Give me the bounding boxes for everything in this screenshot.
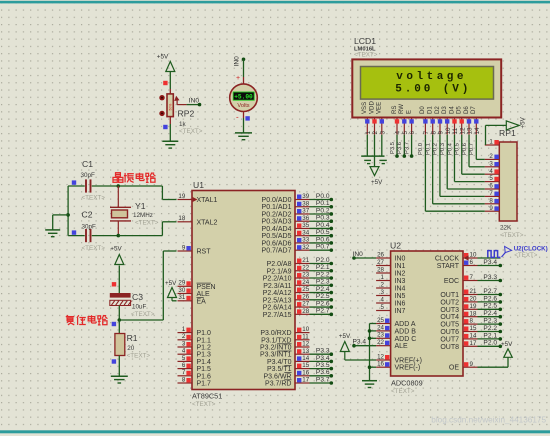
svg-text:P2.6/A14: P2.6/A14 [263, 305, 292, 312]
pin 3 LCD1 VEE [376, 102, 387, 135]
svg-text:P2.2: P2.2 [483, 325, 497, 332]
svg-text:C1: C1 [82, 159, 93, 169]
display text voltage [396, 71, 467, 83]
svg-text:P2.7: P2.7 [483, 288, 497, 295]
part name AT89C51 [192, 392, 222, 409]
svg-text:18: 18 [178, 215, 185, 222]
svg-text:+5V: +5V [157, 54, 169, 61]
pin 10 LCD1 D3 [441, 106, 452, 135]
wire net P3.4 [310, 355, 334, 363]
wire net P2.4 (U2) [478, 310, 503, 318]
svg-text:P3.2/INT0: P3.2/INT0 [260, 345, 292, 352]
svg-text:+5V: +5V [165, 280, 177, 287]
svg-text:IN1: IN1 [395, 263, 406, 270]
wire CLOCK to generator [478, 257, 501, 259]
svg-text:29: 29 [178, 280, 185, 287]
pin 11 LCD1 D4 [448, 106, 459, 135]
pin 1 U1 P1.0 [178, 326, 212, 337]
wire left rail [66, 186, 70, 236]
pin 22 U1 P2.1/A9 [267, 264, 310, 275]
svg-text:20: 20 [127, 345, 135, 352]
svg-text:P2.3: P2.3 [316, 279, 330, 286]
pin 8 U1 P1.7 [178, 376, 212, 387]
wire net P2.6 (U2) [478, 295, 503, 303]
pin 26 U1 P2.5/A13 [263, 293, 310, 304]
svg-text:<TEXT>: <TEXT> [135, 220, 159, 227]
svg-text:P3.5: P3.5 [316, 362, 330, 369]
svg-text:<TEXT>: <TEXT> [514, 252, 537, 259]
pin 9 RP1 [485, 205, 500, 212]
pin 7 RP1 [485, 190, 500, 197]
svg-text:9: 9 [489, 205, 493, 212]
capacitor C3 (electrolytic) [110, 293, 132, 306]
pin 14 U1 P3.4/T0 [267, 355, 310, 366]
svg-text:6: 6 [489, 183, 493, 190]
svg-text:EA: EA [197, 298, 207, 305]
wire voltmeter top [242, 58, 246, 85]
wire C2 row to XTAL2 [117, 222, 177, 238]
svg-text:P0.3/AD3: P0.3/AD3 [262, 219, 292, 226]
svg-text:P0.1: P0.1 [425, 143, 431, 155]
svg-text:P3.6: P3.6 [397, 142, 403, 154]
pin 27 U2 IN1 [376, 259, 405, 270]
node RST junction [112, 318, 121, 326]
svg-text:12: 12 [459, 127, 466, 135]
svg-text:10: 10 [302, 326, 309, 333]
svg-text:1k: 1k [179, 121, 187, 128]
svg-text:P2.7/A15: P2.7/A15 [263, 312, 292, 319]
svg-text:P3.4: P3.4 [316, 355, 330, 362]
pin 7 LCD1 D0 [419, 106, 430, 135]
svg-text:P0.7: P0.7 [469, 143, 475, 155]
svg-text:D1: D1 [427, 106, 434, 114]
svg-text:P0.2: P0.2 [433, 143, 439, 155]
value Y1 12MHz [133, 212, 159, 227]
wire C1 row to XTAL1 [117, 184, 177, 199]
svg-text:11: 11 [452, 127, 459, 134]
svg-text:<TEXT>: <TEXT> [391, 388, 415, 395]
pin 9 U1 RST [178, 244, 212, 255]
pin 20 U2 OUT2 [440, 296, 477, 307]
value R1 20 [127, 345, 151, 360]
svg-text:OUT7: OUT7 [440, 336, 459, 343]
pin 28 U2 IN2 [376, 266, 405, 277]
wire net P3.7 [310, 376, 334, 384]
svg-text:36: 36 [302, 215, 309, 222]
display LCD1 body [352, 59, 501, 117]
chip U2 ADC0809 body [391, 251, 463, 376]
pin 25 U2 ADD A [376, 317, 416, 328]
svg-text:XTAL1: XTAL1 [197, 197, 218, 204]
pin 7 U1 P1.6 [178, 369, 212, 380]
svg-text:P1.5: P1.5 [197, 366, 212, 373]
wire D5 to RP1 pin 4 (net P0.5) [455, 135, 485, 175]
svg-text:8: 8 [470, 318, 474, 325]
svg-text:P0.2/AD2: P0.2/AD2 [262, 211, 292, 218]
pin 2 LCD1 VDD [368, 101, 379, 135]
wire net P2.0 (U2) [478, 340, 503, 348]
svg-text:14: 14 [470, 333, 477, 340]
svg-text:7: 7 [182, 369, 186, 376]
svg-text:1: 1 [182, 326, 186, 333]
svg-text:13: 13 [302, 348, 309, 355]
wire net P3.6 [310, 369, 334, 377]
wire net P2.5 [310, 293, 334, 301]
display LCD1 screen [361, 67, 494, 100]
power +5V (EA) [165, 280, 177, 301]
svg-text:15: 15 [470, 325, 477, 332]
wire net P2.7 [310, 308, 334, 316]
svg-text:ADD A: ADD A [395, 321, 416, 328]
svg-text:OUT8: OUT8 [440, 344, 459, 351]
svg-text:19: 19 [470, 303, 477, 310]
wire net P3.5 [310, 362, 334, 370]
wire net P0.5 [310, 229, 334, 237]
potentiometer RP2 [159, 94, 186, 117]
wire net P2.0 [310, 257, 334, 265]
wire net P2.6 [310, 300, 334, 308]
pin 22 U2 ALE [376, 339, 408, 350]
svg-text:P2.0: P2.0 [483, 340, 497, 347]
pin 12 U2 VREF(+) [376, 353, 422, 364]
svg-text:IN0: IN0 [353, 251, 364, 258]
pin 34 U1 P0.5/AD5 [262, 229, 310, 240]
svg-text:38: 38 [302, 200, 309, 207]
svg-text:<TEXT>: <TEXT> [192, 401, 216, 408]
svg-text:P3.6: P3.6 [316, 369, 330, 376]
label C1 [82, 159, 93, 169]
pin 3 RP1 [485, 160, 500, 167]
wire net P0.1 [310, 200, 334, 208]
svg-text:19: 19 [178, 193, 185, 200]
pin 19 U1 XTAL1 [178, 193, 218, 204]
label U2(CLOCK) [514, 245, 548, 259]
wire D6 to RP1 pin 3 (net P0.6) [462, 135, 485, 167]
svg-text:5: 5 [182, 355, 186, 362]
svg-text:21: 21 [470, 288, 477, 295]
pin 17 U2 OUT8 [440, 340, 477, 351]
wire net P0.7 [310, 244, 334, 252]
svg-text:39: 39 [302, 193, 309, 200]
svg-text:7: 7 [470, 274, 474, 281]
ground (U2 address) [362, 381, 377, 388]
pin 18 U1 XTAL2 [178, 215, 218, 226]
svg-text:12: 12 [302, 341, 309, 348]
svg-text:D7: D7 [470, 106, 477, 114]
pin 4 RP1 [485, 168, 500, 175]
svg-text:IN6: IN6 [395, 301, 406, 308]
svg-text:IN0: IN0 [189, 97, 200, 104]
wire node to RST [119, 251, 176, 320]
svg-text:50%: 50% [169, 104, 173, 111]
voltmeter probe + [236, 75, 240, 82]
svg-text:35: 35 [302, 222, 309, 229]
svg-text:R1: R1 [127, 333, 138, 343]
svg-text:+5V: +5V [501, 341, 513, 348]
svg-text:blog.csdn.net/weixin_44136175: blog.csdn.net/weixin_44136175 [431, 416, 546, 425]
label R1 [127, 333, 138, 343]
svg-text:7: 7 [423, 131, 430, 135]
pin 24 U1 P2.3/A11 [263, 279, 310, 290]
wire net P3.7 (LCD) [404, 135, 413, 158]
svg-text:9: 9 [182, 244, 186, 251]
voltmeter probe - [236, 113, 239, 122]
svg-text:28: 28 [302, 308, 309, 315]
svg-text:P2.0/A8: P2.0/A8 [267, 261, 292, 268]
svg-text:P1.2: P1.2 [197, 345, 212, 352]
svg-text:9: 9 [470, 361, 474, 368]
svg-text:EOC: EOC [444, 278, 459, 285]
svg-text:P2.2/A10: P2.2/A10 [263, 276, 292, 283]
svg-text:P2.5: P2.5 [483, 303, 497, 310]
svg-text:8: 8 [489, 197, 493, 204]
svg-text:C2: C2 [82, 210, 93, 220]
pin 6 RP1 [485, 183, 500, 190]
svg-text:4: 4 [395, 131, 402, 135]
svg-text:D4: D4 [448, 106, 455, 114]
svg-text:IN0: IN0 [234, 56, 241, 67]
svg-text:+: + [236, 75, 240, 82]
svg-text:26: 26 [377, 251, 384, 258]
svg-text:9: 9 [438, 131, 445, 135]
svg-text:P3.0/RXD: P3.0/RXD [260, 330, 291, 337]
svg-text:5.00 (V): 5.00 (V) [395, 83, 471, 95]
svg-text:1: 1 [381, 274, 385, 281]
svg-text:RS: RS [391, 106, 398, 114]
net label IN0 (voltmeter) [234, 56, 241, 67]
pin 26 U2 IN0 [376, 251, 405, 262]
svg-text:P0.5: P0.5 [455, 143, 461, 155]
ground (voltmeter) [235, 133, 252, 140]
pin 4 U1 P1.3 [178, 348, 212, 359]
title reset circuit (red) [66, 315, 108, 325]
wire net P0.2 [310, 207, 334, 215]
svg-text:14: 14 [302, 355, 309, 362]
svg-text:P3.6/WR: P3.6/WR [263, 373, 291, 380]
wire RP2 bottom [163, 117, 170, 141]
pin 4 U2 IN6 [376, 296, 405, 307]
svg-text:1: 1 [365, 131, 372, 135]
pin 19 U2 OUT3 [440, 303, 477, 314]
svg-text:32: 32 [302, 244, 309, 251]
svg-text:P1.4: P1.4 [197, 359, 212, 366]
respack RP1 body [499, 142, 517, 221]
svg-text:10: 10 [445, 127, 452, 135]
capacitor C2 [68, 229, 118, 252]
svg-text:6: 6 [182, 362, 186, 369]
svg-text:P2.6: P2.6 [483, 295, 497, 302]
svg-text:<TEXT>: <TEXT> [82, 245, 106, 252]
wire D0 to RP1 pin 9 (net P0.0) [418, 135, 485, 212]
svg-text:6: 6 [470, 259, 474, 266]
pin 8 RP1 [485, 197, 500, 204]
power +5V (OE) [501, 341, 513, 357]
pin 28 U1 P2.7/A15 [263, 308, 310, 319]
svg-text:24: 24 [302, 279, 309, 286]
svg-text:P1.6: P1.6 [197, 373, 212, 380]
svg-text:D6: D6 [463, 106, 470, 114]
svg-text:P0.6: P0.6 [462, 143, 468, 155]
wire net P2.4 [310, 286, 334, 294]
power +5V (RP2) [157, 54, 175, 72]
wire net P3.4 (U2) [478, 259, 503, 267]
power +5V (reset) [110, 245, 123, 264]
net label IN0 (RP2) [189, 97, 200, 104]
generator U2(CLOCK) [488, 246, 512, 257]
value C3 10uF [131, 304, 155, 318]
svg-text:Y1: Y1 [135, 201, 146, 211]
pin 10 U2 CLOCK [435, 252, 478, 263]
svg-text:P0.1: P0.1 [316, 200, 330, 207]
pin 8 LCD1 D1 [427, 106, 438, 135]
svg-text:17: 17 [302, 377, 309, 384]
value C2 30pF [82, 223, 97, 230]
svg-text:P2.6: P2.6 [316, 300, 330, 307]
svg-text:P1.3: P1.3 [197, 352, 212, 359]
pin 25 U1 P2.4/A12 [263, 286, 310, 297]
pin 2 U2 IN4 [376, 281, 405, 292]
pin 7 U2 EOC [444, 274, 478, 285]
label C3 [132, 292, 143, 302]
svg-text:P0.6: P0.6 [316, 236, 330, 243]
svg-text:30pF: 30pF [82, 223, 97, 230]
pin 3 U1 P1.2 [178, 340, 212, 351]
pin 16 U2 VREF(-) [376, 361, 420, 372]
svg-text:P3.5: P3.5 [390, 142, 396, 154]
pin 1 RP1 [485, 138, 500, 145]
svg-text:IN2: IN2 [395, 271, 406, 278]
part name LM016L [354, 47, 378, 59]
pin 11 U1 P3.1/TXD [261, 333, 309, 344]
pin 23 U1 P2.2/A10 [263, 272, 310, 283]
svg-text:8: 8 [182, 376, 186, 383]
pin 5 LCD1 RW [398, 104, 409, 135]
wire D4 to RP1 pin 5 (net P0.4) [447, 135, 485, 182]
svg-text:P3.7: P3.7 [316, 376, 330, 383]
svg-text:ALE: ALE [197, 291, 211, 298]
crystal Y1 [110, 186, 131, 236]
svg-text:12MHz: 12MHz [133, 212, 153, 219]
svg-text:XTAL2: XTAL2 [197, 219, 218, 226]
svg-text:10: 10 [470, 252, 477, 259]
svg-text:<TEXT>: <TEXT> [82, 194, 106, 201]
svg-text:Volts: Volts [237, 103, 249, 109]
svg-text:U1: U1 [193, 180, 204, 190]
value RP1 22K [500, 225, 524, 239]
svg-text:P1.0: P1.0 [197, 330, 212, 337]
svg-text:27: 27 [302, 301, 309, 308]
svg-text:IN5: IN5 [395, 293, 406, 300]
svg-text:D2: D2 [434, 106, 441, 114]
pin 21 U1 P2.0/A8 [267, 257, 310, 268]
svg-text:P0.4/AD4: P0.4/AD4 [262, 226, 292, 233]
wire net IN0 (U2) [352, 251, 376, 260]
svg-text:30pF: 30pF [81, 172, 96, 179]
pin 16 U1 P3.6/WR [263, 369, 309, 380]
power +5V (RP1) [506, 116, 526, 130]
svg-text:ADD B: ADD B [395, 328, 417, 335]
svg-text:4: 4 [182, 348, 186, 355]
wire net P2.7 (U2) [478, 288, 503, 296]
svg-text:3: 3 [182, 340, 186, 347]
svg-text:VEE: VEE [376, 102, 383, 114]
pin 24 U2 ADD B [376, 324, 416, 335]
pin 23 U2 ADD C [376, 332, 416, 343]
wire net P2.3 (U2) [478, 318, 503, 326]
svg-text:8: 8 [430, 131, 437, 135]
svg-text:P2.5/A13: P2.5/A13 [263, 297, 292, 304]
node voltmeter bottom [245, 116, 249, 120]
value RP2 1k [179, 121, 203, 135]
ground (reset) [111, 376, 128, 383]
svg-text:<TEXT>: <TEXT> [354, 52, 378, 59]
label RP1 [499, 128, 516, 138]
pin 13 LCD1 D6 [463, 106, 474, 135]
svg-text:P2.1/A9: P2.1/A9 [267, 268, 292, 275]
ground (crystal) [45, 215, 68, 237]
pin 29 U1 PSEN [178, 280, 216, 291]
svg-text:22: 22 [377, 339, 384, 346]
svg-text:OE: OE [449, 365, 459, 372]
pin 14 LCD1 D7 [470, 106, 481, 135]
svg-text:P0.7/AD7: P0.7/AD7 [262, 248, 292, 255]
pin 14 U2 OUT7 [440, 333, 477, 344]
svg-text:P2.3/A11: P2.3/A11 [263, 283, 291, 290]
svg-text:+5V: +5V [371, 179, 383, 186]
voltmeter body [230, 84, 258, 112]
pin 2 U1 P1.1 [178, 333, 212, 344]
svg-text:30: 30 [178, 287, 185, 294]
svg-text:P2.5: P2.5 [316, 293, 330, 300]
svg-text:P3.7: P3.7 [404, 142, 410, 154]
svg-text:P0.0: P0.0 [316, 193, 330, 200]
wire net P2.3 [310, 279, 334, 287]
svg-text:E: E [405, 110, 412, 114]
svg-text:OUT6: OUT6 [440, 329, 459, 336]
svg-text:7: 7 [489, 190, 493, 197]
pin 12 LCD1 D5 [456, 106, 467, 135]
pin 8 U2 OUT5 [440, 318, 477, 329]
wire D3 to RP1 pin 6 (net P0.3) [440, 135, 485, 189]
wire net P3.4 to U2 ALE [352, 339, 376, 348]
op U2 designator [390, 241, 401, 251]
svg-text:D5: D5 [456, 106, 463, 114]
pin 36 U1 P0.3/AD3 [262, 215, 310, 226]
svg-text:P0.6/AD6: P0.6/AD6 [262, 240, 292, 247]
svg-text:IN3: IN3 [395, 278, 406, 285]
svg-text:P0.2: P0.2 [316, 207, 330, 214]
svg-text:16: 16 [302, 369, 309, 376]
pin 15 U2 OUT6 [440, 325, 477, 336]
svg-text:23: 23 [302, 272, 309, 279]
pin 21 U2 OUT1 [440, 288, 477, 299]
svg-text:C3: C3 [132, 292, 143, 302]
wire RP2 top [163, 72, 170, 95]
svg-text:6: 6 [409, 131, 416, 135]
pin 6 LCD1 E [405, 110, 416, 135]
svg-text:RST: RST [197, 249, 212, 256]
svg-text:P3.1/TXD: P3.1/TXD [261, 337, 291, 344]
pin 35 U1 P0.4/AD4 [262, 222, 310, 233]
svg-text:VREF(+): VREF(+) [395, 358, 422, 365]
pin 1 LCD1 VSS [361, 102, 372, 135]
wire net P0.4 [310, 222, 334, 230]
svg-text:P3.3: P3.3 [316, 348, 330, 355]
svg-text:P3.7/RD: P3.7/RD [265, 381, 291, 388]
svg-text:25: 25 [302, 286, 309, 293]
wire voltmeter bottom [243, 112, 245, 133]
watermark [431, 416, 546, 425]
